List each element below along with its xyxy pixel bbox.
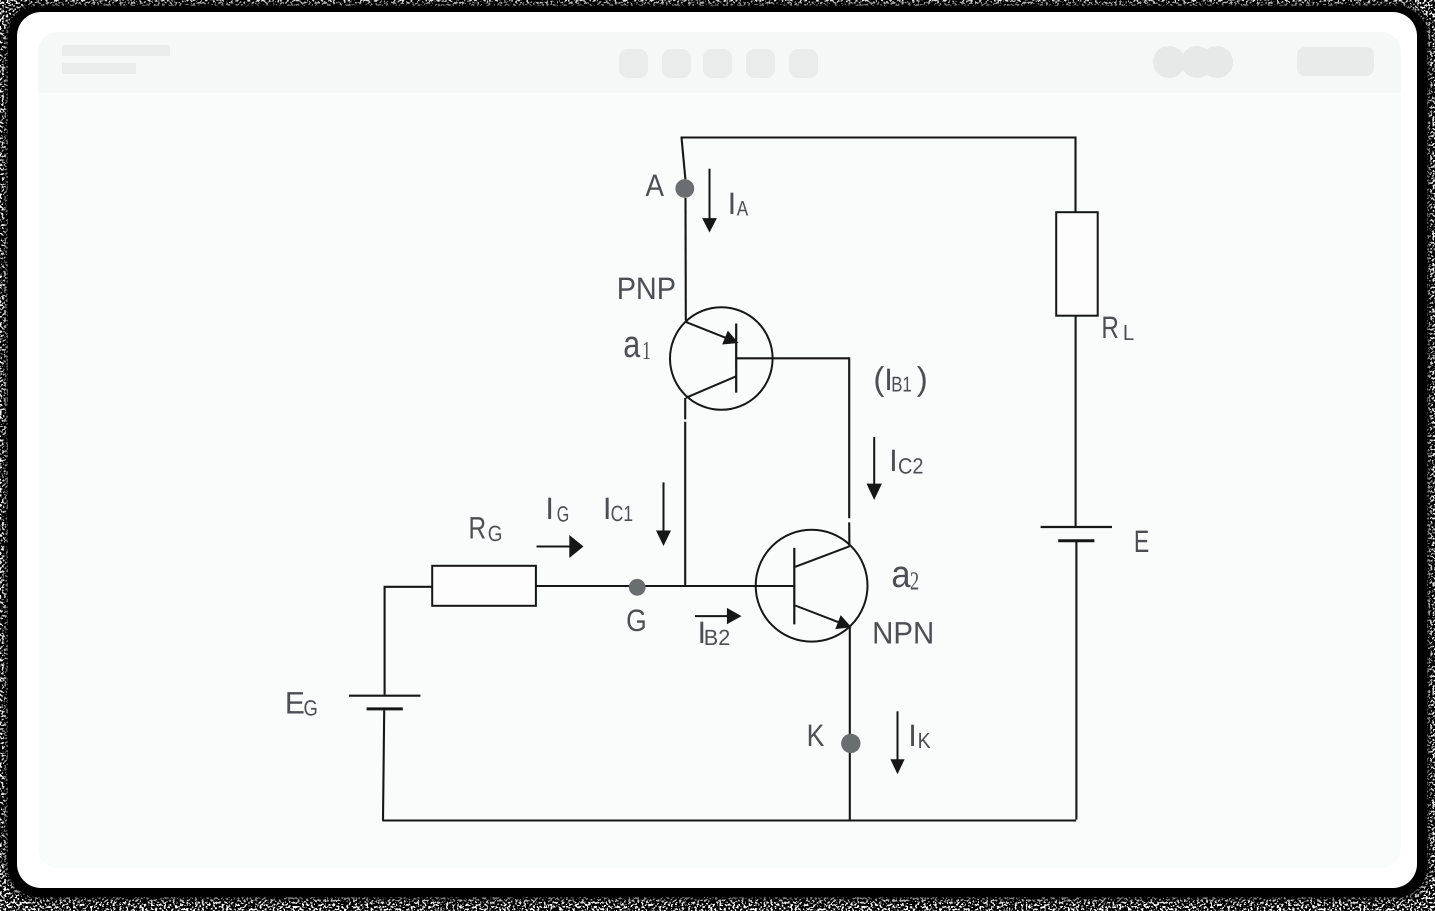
battery EG long plate — [349, 695, 420, 697]
svg-text:K: K — [807, 718, 825, 753]
svg-text:E: E — [285, 686, 305, 721]
transistor Q1 emitter arrowhead — [722, 331, 738, 345]
wire NPN emitter to bottom rail — [849, 628, 851, 820]
arrow IG — [537, 546, 571, 548]
node A dot — [675, 179, 694, 198]
wire top corner down to node A — [682, 138, 686, 180]
battery EG short plate — [367, 707, 403, 710]
transistor Q1 emitter line — [686, 322, 726, 338]
svg-text:A: A — [646, 168, 665, 203]
header avatar circles — [1153, 46, 1185, 78]
resistor RL — [1056, 212, 1098, 316]
svg-text:(: ( — [873, 360, 884, 397]
wire PNP base to IC2 branch — [736, 358, 849, 518]
battery E long plate — [1041, 526, 1112, 528]
transistor Q2 collector line — [795, 546, 849, 567]
svg-text:1: 1 — [642, 336, 651, 365]
svg-text:R: R — [469, 510, 487, 545]
svg-text:B1: B1 — [891, 372, 912, 396]
window header bar — [38, 32, 1401, 93]
wire RL to E battery — [1075, 316, 1077, 526]
transistor Q2 NPN circle — [756, 530, 868, 642]
svg-text:C2: C2 — [898, 454, 924, 479]
arrow IB2 — [695, 615, 728, 617]
wire RG left to EG — [385, 587, 433, 695]
svg-text:G: G — [557, 501, 570, 526]
header button — [1297, 47, 1374, 76]
svg-text:I: I — [889, 443, 898, 478]
svg-text:L: L — [1123, 320, 1134, 345]
transistor Q2 emitter line — [795, 606, 838, 623]
header title bar 1 — [62, 45, 170, 56]
svg-text:R: R — [1101, 310, 1119, 345]
svg-text:PNP: PNP — [617, 271, 676, 306]
transistor Q2 emitter arrowhead — [835, 615, 851, 629]
svg-text:NPN: NPN — [872, 615, 934, 650]
resistor RG — [432, 566, 536, 606]
node G dot — [629, 579, 646, 596]
transistor Q1 collector line — [686, 376, 736, 398]
svg-text:a: a — [891, 554, 911, 596]
svg-text:): ) — [917, 360, 928, 397]
arrow IK — [897, 711, 899, 760]
wire EG to bottom rail — [383, 710, 384, 820]
svg-text:G: G — [626, 603, 647, 638]
wire bottom rail — [382, 819, 1076, 821]
node K dot — [841, 734, 860, 753]
transistor Q2 base bar — [793, 548, 795, 625]
wire gate line RG to NPN base — [536, 585, 794, 587]
svg-text:C1: C1 — [611, 501, 634, 526]
wire PNP collector down to gate line — [684, 398, 686, 419]
wire top rail A to RL branch — [681, 138, 1076, 213]
arrow IC2 — [873, 437, 875, 485]
wire node A to PNP emitter — [684, 198, 686, 321]
header tab squares — [619, 49, 648, 78]
wire E battery to bottom rail — [1075, 542, 1077, 820]
svg-text:E: E — [1134, 524, 1149, 559]
wire junction to NPN collector — [848, 522, 850, 546]
svg-text:2: 2 — [910, 567, 919, 596]
svg-text:I: I — [908, 718, 917, 753]
svg-text:A: A — [737, 198, 749, 221]
arrow IC1 — [663, 482, 665, 532]
header title bar 2 — [62, 63, 136, 74]
svg-text:G: G — [488, 521, 503, 546]
svg-text:B2: B2 — [704, 625, 731, 650]
svg-text:G: G — [304, 696, 318, 721]
svg-text:I: I — [728, 186, 737, 221]
transistor Q1 base bar — [735, 324, 737, 393]
transistor Q1 PNP circle — [670, 307, 773, 410]
svg-text:I: I — [545, 491, 554, 526]
svg-text:a: a — [623, 324, 641, 366]
battery E short plate — [1058, 539, 1094, 542]
svg-text:K: K — [918, 728, 931, 753]
arrow IA — [709, 169, 711, 219]
